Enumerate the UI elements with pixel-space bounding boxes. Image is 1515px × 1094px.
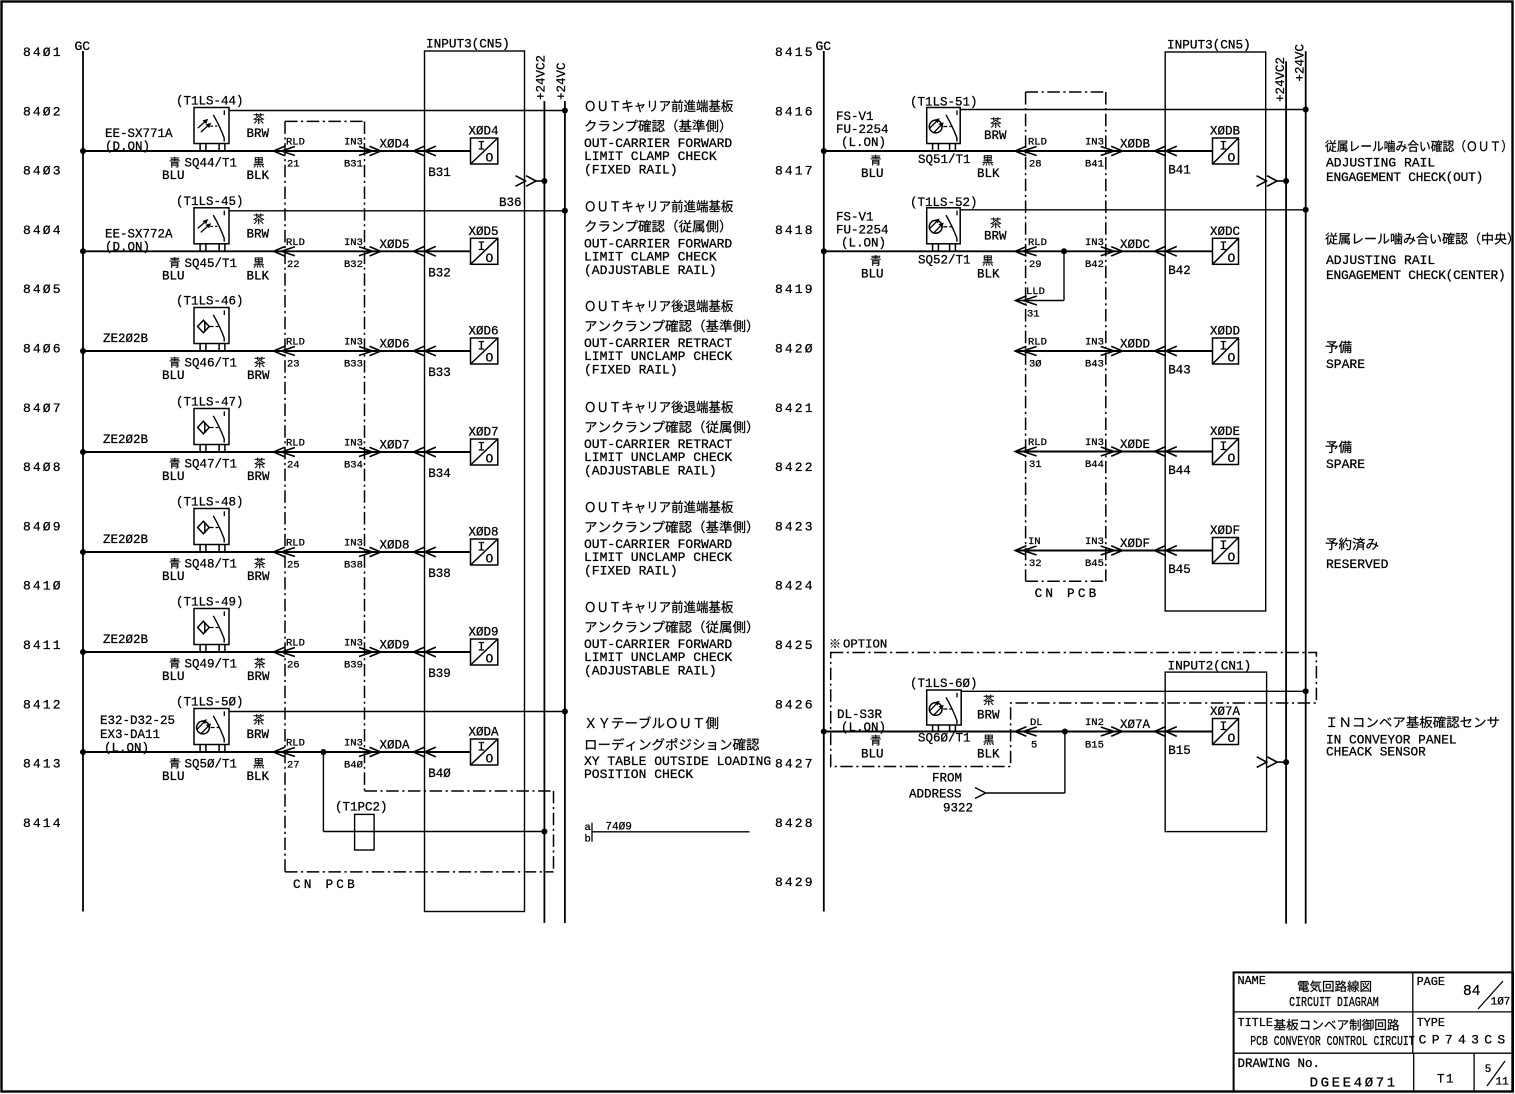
svg-text:B43: B43 bbox=[1085, 359, 1104, 371]
svg-text:B33: B33 bbox=[428, 366, 451, 380]
svg-text:CIRCUIT DIAGRAM: CIRCUIT DIAGRAM bbox=[1289, 995, 1379, 1011]
svg-text:SPARE: SPARE bbox=[1326, 357, 1365, 372]
svg-text:(L.ON): (L.ON) bbox=[104, 742, 149, 756]
svg-text:INPUT2(CN1): INPUT2(CN1) bbox=[1168, 659, 1252, 674]
svg-text:8416: 8416 bbox=[775, 104, 815, 119]
svg-text:OPTION: OPTION bbox=[843, 638, 887, 652]
svg-text:8412: 8412 bbox=[23, 697, 63, 712]
svg-text:XØD9: XØD9 bbox=[380, 639, 410, 653]
svg-text:FU-2254: FU-2254 bbox=[836, 223, 889, 237]
svg-text:+24VC: +24VC bbox=[555, 62, 569, 100]
svg-text:B44: B44 bbox=[1168, 464, 1191, 478]
svg-text:B38: B38 bbox=[428, 567, 451, 581]
svg-text:(ADJUSTABLE RAIL): (ADJUSTABLE RAIL) bbox=[584, 664, 717, 679]
svg-text:XØDF: XØDF bbox=[1210, 524, 1240, 538]
svg-text:8417: 8417 bbox=[775, 164, 815, 179]
svg-text:RLD: RLD bbox=[286, 337, 305, 349]
svg-text:O: O bbox=[486, 452, 494, 467]
svg-text:XØDE: XØDE bbox=[1210, 425, 1240, 439]
svg-text:B32: B32 bbox=[344, 259, 363, 271]
svg-text:DRAWING No.: DRAWING No. bbox=[1238, 1057, 1321, 1071]
svg-text:BLU: BLU bbox=[162, 770, 185, 784]
svg-text:B15: B15 bbox=[1085, 740, 1104, 752]
svg-text:28: 28 bbox=[1029, 159, 1042, 171]
svg-text:E32-D32-25: E32-D32-25 bbox=[100, 714, 175, 728]
svg-text:I: I bbox=[1220, 439, 1228, 454]
svg-text:BLK: BLK bbox=[247, 269, 270, 283]
svg-text:11: 11 bbox=[1496, 1077, 1510, 1089]
svg-text:31: 31 bbox=[1027, 309, 1040, 321]
svg-text:CHEACK SENSOR: CHEACK SENSOR bbox=[1326, 745, 1426, 760]
svg-text:SQ51/T1: SQ51/T1 bbox=[918, 153, 971, 167]
svg-text:B4Ø: B4Ø bbox=[428, 767, 451, 781]
svg-text:SQ52/T1: SQ52/T1 bbox=[918, 253, 971, 267]
svg-text:XØD8: XØD8 bbox=[469, 526, 499, 540]
svg-text:BLK: BLK bbox=[977, 748, 1000, 762]
svg-text:(T1PC2): (T1PC2) bbox=[335, 801, 388, 815]
svg-text:ENGAGEMENT CHECK(OUT): ENGAGEMENT CHECK(OUT) bbox=[1326, 170, 1483, 185]
svg-text:(FIXED RAIL): (FIXED RAIL) bbox=[584, 363, 678, 378]
svg-text:XØ7A: XØ7A bbox=[1210, 705, 1241, 719]
svg-text:O: O bbox=[1228, 451, 1236, 466]
svg-text:8423: 8423 bbox=[775, 519, 815, 534]
svg-text:B43: B43 bbox=[1168, 364, 1191, 378]
svg-text:B4Ø: B4Ø bbox=[344, 760, 363, 772]
svg-text:27: 27 bbox=[287, 760, 300, 772]
svg-text:PCB CONVEYOR CONTROL CIRCUIT: PCB CONVEYOR CONTROL CIRCUIT bbox=[1250, 1035, 1415, 1050]
svg-text:8425: 8425 bbox=[775, 638, 815, 653]
svg-text:XØD4: XØD4 bbox=[469, 125, 499, 139]
svg-text:XØD7: XØD7 bbox=[469, 426, 499, 440]
svg-text:BRW: BRW bbox=[984, 129, 1007, 143]
svg-text:8414: 8414 bbox=[23, 816, 63, 831]
svg-text:B15: B15 bbox=[1168, 744, 1191, 758]
svg-text:XØD6: XØD6 bbox=[380, 338, 410, 352]
svg-text:(L.ON): (L.ON) bbox=[841, 236, 886, 250]
svg-text:BRW: BRW bbox=[247, 127, 270, 141]
svg-text:(T1LS-5Ø): (T1LS-5Ø) bbox=[176, 696, 244, 710]
svg-text:a: a bbox=[585, 822, 591, 834]
svg-text:BRW: BRW bbox=[247, 470, 270, 484]
svg-text:XØDC: XØDC bbox=[1210, 225, 1240, 239]
svg-text:B34: B34 bbox=[428, 467, 451, 481]
svg-text:SQ46/T1: SQ46/T1 bbox=[185, 357, 238, 371]
svg-text:+24VC: +24VC bbox=[1293, 44, 1307, 82]
svg-text:B42: B42 bbox=[1085, 259, 1104, 271]
svg-text:BLK: BLK bbox=[247, 770, 270, 784]
svg-text:B31: B31 bbox=[428, 166, 451, 180]
svg-text:I: I bbox=[1220, 339, 1228, 354]
svg-text:EE-SX772A: EE-SX772A bbox=[105, 227, 173, 241]
svg-text:RLD: RLD bbox=[286, 438, 305, 450]
svg-text:(T1LS-47): (T1LS-47) bbox=[176, 396, 244, 410]
svg-text:PAGE: PAGE bbox=[1417, 975, 1445, 989]
svg-text:DL-S3R: DL-S3R bbox=[837, 708, 883, 722]
svg-text:31: 31 bbox=[1029, 459, 1042, 471]
svg-text:O: O bbox=[486, 351, 494, 366]
svg-text:(T1LS-6Ø): (T1LS-6Ø) bbox=[910, 677, 978, 691]
svg-text:XØD6: XØD6 bbox=[469, 325, 499, 339]
svg-text:RESERVED: RESERVED bbox=[1326, 557, 1389, 572]
svg-text:I: I bbox=[478, 339, 486, 354]
svg-text:RLD: RLD bbox=[286, 237, 305, 249]
svg-text:XØDF: XØDF bbox=[1120, 537, 1150, 551]
svg-text:84Ø9: 84Ø9 bbox=[23, 519, 63, 534]
svg-text:BLK: BLK bbox=[247, 169, 270, 183]
svg-text:B32: B32 bbox=[428, 266, 451, 280]
svg-text:BLU: BLU bbox=[162, 570, 185, 584]
svg-text:26: 26 bbox=[287, 660, 300, 672]
svg-text:ADDRESS: ADDRESS bbox=[909, 788, 962, 802]
svg-text:XØD8: XØD8 bbox=[380, 539, 410, 553]
svg-text:5: 5 bbox=[1031, 740, 1037, 752]
svg-text:LLD: LLD bbox=[1026, 286, 1045, 298]
svg-text:BRW: BRW bbox=[247, 728, 270, 742]
svg-text:SQ44/T1: SQ44/T1 bbox=[185, 157, 238, 171]
svg-text:(ADJUSTABLE RAIL): (ADJUSTABLE RAIL) bbox=[584, 263, 717, 278]
svg-text:(T1LS-49): (T1LS-49) bbox=[176, 596, 244, 610]
svg-text:b: b bbox=[585, 834, 591, 846]
svg-text:32: 32 bbox=[1029, 558, 1042, 570]
svg-text:RLD: RLD bbox=[286, 538, 305, 550]
svg-text:8424: 8424 bbox=[775, 579, 815, 594]
svg-text:84Ø3: 84Ø3 bbox=[23, 164, 63, 179]
svg-text:ADJUSTING RAIL: ADJUSTING RAIL bbox=[1326, 156, 1435, 171]
svg-text:EX3-DA11: EX3-DA11 bbox=[100, 728, 160, 742]
svg-text:(T1LS-44): (T1LS-44) bbox=[176, 95, 244, 109]
svg-text:I: I bbox=[478, 239, 486, 254]
svg-text:NAME: NAME bbox=[1238, 974, 1266, 988]
svg-text:BLK: BLK bbox=[977, 167, 1000, 181]
svg-text:8426: 8426 bbox=[775, 697, 815, 712]
svg-text:ZE2Ø2B: ZE2Ø2B bbox=[103, 332, 149, 346]
svg-text:(T1LS-51): (T1LS-51) bbox=[910, 96, 978, 110]
svg-text:5: 5 bbox=[1485, 1064, 1492, 1076]
svg-text:O: O bbox=[1228, 731, 1236, 746]
svg-text:XØDA: XØDA bbox=[469, 726, 500, 740]
svg-text:INPUT3(CN5): INPUT3(CN5) bbox=[426, 37, 510, 52]
svg-text:29: 29 bbox=[1029, 259, 1042, 271]
svg-text:B34: B34 bbox=[344, 460, 363, 472]
svg-text:BLU: BLU bbox=[162, 169, 185, 183]
svg-text:3Ø: 3Ø bbox=[1029, 359, 1042, 371]
svg-text:BLU: BLU bbox=[162, 269, 185, 283]
svg-text:(T1LS-52): (T1LS-52) bbox=[910, 196, 978, 210]
svg-text:XØDD: XØDD bbox=[1210, 325, 1240, 339]
svg-text:BLU: BLU bbox=[861, 167, 884, 181]
svg-text:8427: 8427 bbox=[775, 757, 815, 772]
svg-text:84: 84 bbox=[1463, 984, 1480, 1000]
svg-text:(T1LS-45): (T1LS-45) bbox=[176, 195, 244, 209]
svg-text:BRW: BRW bbox=[247, 670, 270, 684]
svg-text:FROM: FROM bbox=[932, 772, 962, 786]
svg-text:XØDD: XØDD bbox=[1120, 338, 1150, 352]
svg-text:B41: B41 bbox=[1085, 159, 1104, 171]
svg-text:RLD: RLD bbox=[1028, 437, 1047, 449]
svg-text:O: O bbox=[1228, 351, 1236, 366]
svg-text:B38: B38 bbox=[344, 560, 363, 572]
svg-text:RLD: RLD bbox=[286, 738, 305, 750]
svg-text:RLD: RLD bbox=[1028, 237, 1047, 249]
svg-text:XØD4: XØD4 bbox=[380, 138, 410, 152]
svg-text:(D.ON): (D.ON) bbox=[105, 140, 150, 154]
svg-text:O: O bbox=[486, 251, 494, 266]
svg-text:BLU: BLU bbox=[162, 670, 185, 684]
svg-text:XØD5: XØD5 bbox=[469, 225, 499, 239]
svg-text:FS-V1: FS-V1 bbox=[836, 110, 874, 124]
svg-text:TITLE: TITLE bbox=[1238, 1016, 1273, 1030]
svg-text:XØD5: XØD5 bbox=[380, 238, 410, 252]
svg-text:ZE2Ø2B: ZE2Ø2B bbox=[103, 533, 149, 547]
svg-text:BRW: BRW bbox=[984, 229, 1007, 243]
svg-text:8428: 8428 bbox=[775, 816, 815, 831]
svg-text:84Ø2: 84Ø2 bbox=[23, 104, 63, 119]
svg-text:(T1LS-48): (T1LS-48) bbox=[176, 496, 244, 510]
svg-text:BLU: BLU bbox=[861, 748, 884, 762]
svg-text:B36: B36 bbox=[499, 196, 522, 210]
svg-text:O: O bbox=[486, 652, 494, 667]
svg-text:O: O bbox=[1228, 251, 1236, 266]
svg-text:ZE2Ø2B: ZE2Ø2B bbox=[103, 433, 149, 447]
svg-text:BRW: BRW bbox=[977, 709, 1000, 723]
svg-text:84Ø6: 84Ø6 bbox=[23, 342, 63, 357]
svg-text:XØDA: XØDA bbox=[380, 739, 411, 753]
svg-text:8411: 8411 bbox=[23, 638, 63, 653]
svg-text:8429: 8429 bbox=[775, 875, 815, 890]
svg-text:RLD: RLD bbox=[286, 137, 305, 149]
svg-text:B44: B44 bbox=[1085, 459, 1104, 471]
svg-text:(T1LS-46): (T1LS-46) bbox=[176, 295, 244, 309]
svg-text:84Ø4: 84Ø4 bbox=[23, 223, 63, 238]
svg-text:O: O bbox=[1228, 151, 1236, 166]
svg-text:ADJUSTING RAIL: ADJUSTING RAIL bbox=[1326, 253, 1435, 268]
svg-text:8418: 8418 bbox=[775, 223, 815, 238]
svg-text:I: I bbox=[1220, 538, 1228, 553]
svg-text:B31: B31 bbox=[344, 159, 363, 171]
svg-text:POSITION CHECK: POSITION CHECK bbox=[584, 767, 693, 782]
svg-text:24: 24 bbox=[287, 460, 300, 472]
svg-text:XØ7A: XØ7A bbox=[1120, 718, 1151, 732]
svg-text:BLK: BLK bbox=[977, 267, 1000, 281]
svg-text:8415: 8415 bbox=[775, 45, 815, 60]
svg-text:O: O bbox=[486, 151, 494, 166]
svg-text:B42: B42 bbox=[1168, 264, 1191, 278]
svg-text:(ADJUSTABLE RAIL): (ADJUSTABLE RAIL) bbox=[584, 464, 717, 479]
svg-text:SQ48/T1: SQ48/T1 bbox=[185, 558, 238, 572]
svg-text:(FIXED RAIL): (FIXED RAIL) bbox=[584, 163, 678, 178]
svg-text:SQ45/T1: SQ45/T1 bbox=[185, 257, 238, 271]
svg-text:23: 23 bbox=[287, 359, 300, 371]
svg-text:(FIXED RAIL): (FIXED RAIL) bbox=[584, 564, 678, 579]
svg-text:84Ø8: 84Ø8 bbox=[23, 460, 63, 475]
svg-text:8419: 8419 bbox=[775, 282, 815, 297]
svg-text:BLU: BLU bbox=[861, 267, 884, 281]
svg-text:BRW: BRW bbox=[247, 570, 270, 584]
svg-text:9322: 9322 bbox=[943, 802, 973, 816]
svg-text:EE-SX771A: EE-SX771A bbox=[105, 127, 173, 141]
svg-text:SQ6Ø/T1: SQ6Ø/T1 bbox=[918, 732, 971, 746]
svg-text:XØD9: XØD9 bbox=[469, 626, 499, 640]
svg-text:CN PCB: CN PCB bbox=[293, 877, 358, 892]
svg-text:CN PCB: CN PCB bbox=[1035, 586, 1100, 601]
svg-text:B45: B45 bbox=[1085, 558, 1104, 570]
svg-text:RLD: RLD bbox=[1028, 337, 1047, 349]
svg-text:84Ø1: 84Ø1 bbox=[23, 45, 63, 60]
svg-text:I: I bbox=[478, 640, 486, 655]
svg-text:SPARE: SPARE bbox=[1326, 457, 1365, 472]
svg-text:BRW: BRW bbox=[247, 227, 270, 241]
svg-text:XØDB: XØDB bbox=[1120, 138, 1151, 152]
svg-text:B45: B45 bbox=[1168, 563, 1191, 577]
svg-text:TYPE: TYPE bbox=[1417, 1016, 1445, 1030]
svg-text:O: O bbox=[1228, 550, 1236, 565]
svg-text:XØDE: XØDE bbox=[1120, 438, 1150, 452]
svg-text:I: I bbox=[1220, 719, 1228, 734]
svg-text:XØDB: XØDB bbox=[1210, 125, 1241, 139]
svg-text:74Ø9: 74Ø9 bbox=[605, 822, 631, 834]
svg-text:(L.ON): (L.ON) bbox=[841, 721, 886, 735]
svg-text:21: 21 bbox=[287, 159, 300, 171]
svg-text:I: I bbox=[478, 740, 486, 755]
svg-text:84Ø5: 84Ø5 bbox=[23, 282, 63, 297]
svg-text:XØD7: XØD7 bbox=[380, 439, 410, 453]
svg-text:SQ47/T1: SQ47/T1 bbox=[185, 458, 238, 472]
svg-text:I: I bbox=[478, 540, 486, 555]
svg-text:BRW: BRW bbox=[247, 369, 270, 383]
svg-text:841Ø: 841Ø bbox=[23, 579, 63, 594]
svg-text:84Ø7: 84Ø7 bbox=[23, 401, 63, 416]
svg-text:XØDC: XØDC bbox=[1120, 238, 1150, 252]
svg-text:+24VC2: +24VC2 bbox=[534, 55, 548, 100]
svg-text:INPUT3(CN5): INPUT3(CN5) bbox=[1167, 38, 1251, 53]
svg-text:(L.ON): (L.ON) bbox=[841, 136, 886, 150]
svg-text:O: O bbox=[486, 752, 494, 767]
svg-text:B41: B41 bbox=[1168, 164, 1191, 178]
svg-text:SQ5Ø/T1: SQ5Ø/T1 bbox=[185, 758, 238, 772]
svg-text:+24VC2: +24VC2 bbox=[1274, 57, 1288, 102]
svg-text:8422: 8422 bbox=[775, 460, 815, 475]
svg-text:O: O bbox=[486, 552, 494, 567]
svg-text:25: 25 bbox=[287, 560, 300, 572]
svg-text:B39: B39 bbox=[428, 667, 451, 681]
svg-text:ENGAGEMENT CHECK(CENTER): ENGAGEMENT CHECK(CENTER) bbox=[1326, 268, 1506, 283]
svg-text:8413: 8413 bbox=[23, 757, 63, 772]
svg-text:22: 22 bbox=[287, 259, 300, 271]
svg-text:B33: B33 bbox=[344, 359, 363, 371]
svg-text:BLU: BLU bbox=[162, 470, 185, 484]
svg-text:FS-V1: FS-V1 bbox=[836, 210, 874, 224]
svg-text:I: I bbox=[1220, 239, 1228, 254]
svg-text:8421: 8421 bbox=[775, 401, 815, 416]
svg-text:ZE2Ø2B: ZE2Ø2B bbox=[103, 633, 149, 647]
svg-text:SQ49/T1: SQ49/T1 bbox=[185, 658, 238, 672]
svg-text:(D.ON): (D.ON) bbox=[105, 240, 150, 254]
svg-text:I: I bbox=[1220, 139, 1228, 154]
svg-text:BLU: BLU bbox=[162, 369, 185, 383]
svg-text:FU-2254: FU-2254 bbox=[836, 123, 889, 137]
svg-text:T1: T1 bbox=[1437, 1073, 1455, 1087]
svg-text:1Ø7: 1Ø7 bbox=[1491, 997, 1511, 1009]
svg-text:RLD: RLD bbox=[1028, 137, 1047, 149]
svg-text:I: I bbox=[478, 139, 486, 154]
svg-text:842Ø: 842Ø bbox=[775, 342, 815, 357]
svg-text:I: I bbox=[478, 440, 486, 455]
svg-text:B39: B39 bbox=[344, 660, 363, 672]
svg-text:RLD: RLD bbox=[286, 638, 305, 650]
